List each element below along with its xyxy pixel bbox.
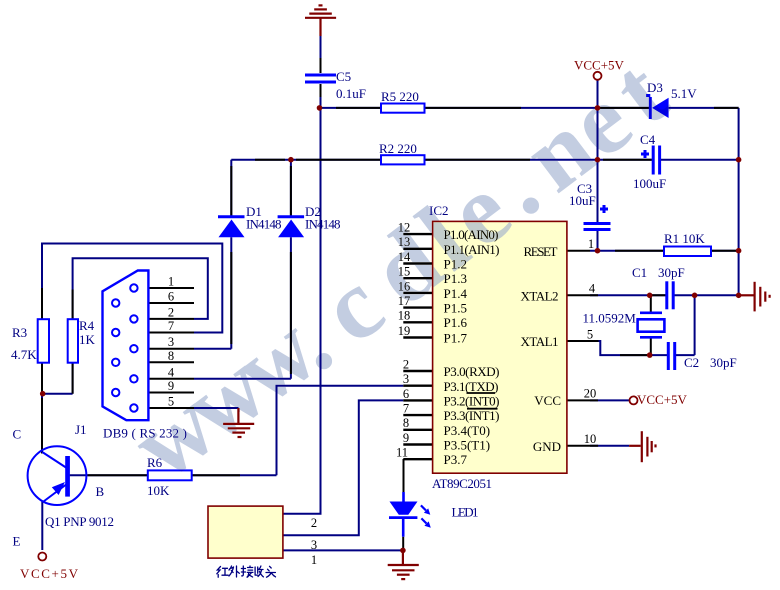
svg-text:10: 10	[584, 432, 597, 446]
svg-text:RESET: RESET	[524, 244, 558, 259]
svg-text:XTAL1: XTAL1	[521, 334, 559, 349]
svg-text:P3.3(INT1): P3.3(INT1)	[444, 408, 500, 423]
svg-text:IN4148: IN4148	[246, 217, 282, 232]
svg-text:11: 11	[396, 446, 408, 460]
svg-text:P3.1(TXD): P3.1(TXD)	[444, 379, 499, 394]
svg-text:1: 1	[311, 553, 317, 567]
svg-text:P3.7: P3.7	[444, 452, 468, 467]
svg-text:XTAL2: XTAL2	[521, 289, 559, 304]
svg-text:P1.6: P1.6	[444, 315, 468, 330]
svg-text:11.0592M: 11.0592M	[583, 311, 637, 326]
svg-text:AT89C2051: AT89C2051	[432, 476, 492, 491]
svg-text:8: 8	[168, 349, 174, 363]
svg-text:P3.5(T1): P3.5(T1)	[444, 438, 491, 453]
svg-text:7: 7	[168, 319, 174, 333]
svg-text:5.1V: 5.1V	[671, 86, 697, 101]
svg-text:3: 3	[311, 538, 317, 552]
svg-text:VCC+5V: VCC+5V	[637, 392, 688, 407]
svg-text:C: C	[13, 427, 22, 442]
svg-text:VCC: VCC	[534, 393, 561, 408]
svg-text:4: 4	[589, 282, 596, 296]
svg-text:P3.4(T0): P3.4(T0)	[444, 423, 491, 438]
svg-text:C1: C1	[632, 265, 647, 280]
svg-text:0.1uF: 0.1uF	[336, 86, 366, 101]
svg-text:30pF: 30pF	[658, 265, 685, 280]
svg-text:8: 8	[403, 416, 409, 430]
svg-text:J1: J1	[75, 422, 87, 437]
svg-text:C2: C2	[684, 355, 699, 370]
svg-text:B: B	[96, 484, 105, 499]
svg-text:1: 1	[168, 275, 174, 289]
svg-text:2: 2	[168, 305, 174, 319]
svg-text:3: 3	[168, 335, 174, 349]
svg-text:Q1 PNP 9012: Q1 PNP 9012	[45, 514, 114, 529]
svg-text:P3.0(RXD): P3.0(RXD)	[444, 364, 500, 379]
svg-text:2: 2	[311, 516, 317, 530]
svg-text:VCC+5V: VCC+5V	[20, 566, 79, 581]
svg-text:R2 220: R2 220	[379, 141, 417, 156]
svg-text:E: E	[13, 534, 21, 549]
svg-text:R1 10K: R1 10K	[664, 231, 705, 246]
svg-text:5: 5	[587, 328, 593, 342]
svg-text:20: 20	[584, 387, 597, 401]
svg-text:1: 1	[588, 237, 594, 251]
svg-text:30pF: 30pF	[710, 355, 737, 370]
svg-text:9: 9	[403, 431, 409, 445]
svg-text:P1.7: P1.7	[444, 331, 468, 346]
svg-text:IN4148: IN4148	[305, 217, 341, 232]
svg-text:1K: 1K	[79, 332, 96, 347]
svg-text:R3: R3	[12, 325, 27, 340]
svg-text:6: 6	[168, 290, 174, 304]
svg-text:R4: R4	[79, 318, 95, 333]
svg-text:6: 6	[403, 387, 409, 401]
svg-text:3: 3	[403, 372, 409, 386]
svg-text:GND: GND	[533, 439, 561, 454]
svg-text:7: 7	[403, 402, 409, 416]
svg-text:100uF: 100uF	[633, 176, 666, 191]
svg-text:LED1: LED1	[452, 505, 479, 520]
svg-text:P3.2(INT0): P3.2(INT0)	[444, 394, 500, 409]
svg-text:4.7K: 4.7K	[11, 347, 37, 362]
svg-text:C5: C5	[336, 69, 351, 84]
svg-text:2: 2	[403, 357, 409, 371]
svg-text:R5 220: R5 220	[381, 89, 419, 104]
